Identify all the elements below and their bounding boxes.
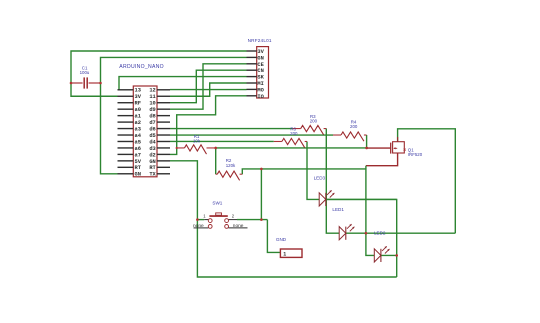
svg-text:a1: a1 [135, 114, 141, 120]
label LED1 [332, 207, 344, 212]
svg-text:10: 10 [149, 101, 155, 107]
node LED1 cathode junction [365, 232, 368, 235]
node SW1 pin2 junction [260, 218, 263, 221]
wire R6 to LED3 anode [307, 141, 319, 199]
svg-text:3V: 3V [135, 94, 142, 100]
svg-text:RT: RT [149, 165, 156, 171]
label none right [233, 224, 244, 229]
label none left [193, 224, 204, 229]
svg-text:RF: RF [135, 101, 141, 107]
svg-text:CE: CE [257, 62, 264, 68]
wire NRF IRQ to Arduino D2 [170, 96, 247, 155]
resistor R4 [333, 132, 367, 141]
svg-text:d5: d5 [149, 133, 155, 139]
svg-text:13: 13 [135, 88, 141, 94]
node R1-right junction [214, 147, 217, 150]
label R2 120k [226, 158, 236, 168]
svg-text:a4: a4 [135, 133, 142, 139]
svg-text:LED3: LED3 [314, 175, 326, 180]
wire 3V3 net: NRF 3V row to C1 left rail [71, 51, 247, 96]
node LED2 cathode junction [395, 254, 398, 257]
svg-text:5V: 5V [135, 159, 142, 165]
wire D5 to R4 [170, 134, 333, 136]
wire D12 to NRF MOSI [170, 89, 247, 91]
svg-text:GN: GN [135, 172, 141, 178]
svg-text:3V: 3V [257, 49, 264, 55]
resistor R2 [216, 171, 243, 180]
svg-text:120k: 120k [226, 163, 236, 168]
svg-text:TX: TX [149, 172, 156, 178]
svg-text:SW1: SW1 [212, 200, 222, 205]
svg-text:none: none [233, 224, 244, 229]
label LED2 [374, 231, 386, 236]
svg-text:a5: a5 [135, 139, 141, 145]
op-amp U2 Arduino Nano body with pin labels [118, 86, 171, 178]
node SW1 pin1 junction [196, 218, 199, 221]
svg-text:d2: d2 [149, 152, 155, 158]
svg-text:a6: a6 [135, 146, 141, 152]
label R3 200 [310, 114, 318, 124]
svg-text:200: 200 [350, 124, 358, 129]
diode LED3 [319, 190, 334, 206]
wire R1/R4 node to Q1 gate row [216, 147, 368, 149]
svg-text:a3: a3 [135, 126, 141, 132]
wire Q1 drain loop [398, 129, 456, 233]
svg-text:a0: a0 [135, 107, 141, 113]
node R4-gate junction [365, 147, 368, 150]
resistor R1 [177, 145, 216, 154]
wire Q1 gate lead [367, 147, 391, 149]
svg-text:IO: IO [257, 94, 264, 100]
wire source node down to LED2 anode [366, 166, 374, 256]
wire LED2 cathode [381, 254, 397, 256]
transistor Q1 IRF520 MOSFET [391, 137, 406, 154]
svg-text:100u: 100u [80, 70, 90, 75]
label LED3 [314, 175, 326, 180]
wire Arduino GND right pin down to bottom rail [170, 161, 397, 277]
label SW1 [212, 200, 222, 205]
svg-text:10k: 10k [193, 139, 201, 144]
ground GND terminal [280, 249, 302, 258]
svg-text:LED2: LED2 [374, 231, 386, 236]
wire D6 to R3 [170, 128, 293, 130]
svg-text:d7: d7 [149, 120, 155, 126]
svg-text:NRF24L01: NRF24L01 [248, 38, 272, 43]
svg-text:RT: RT [135, 165, 142, 171]
wire R3 to LED1 anode [326, 129, 339, 234]
svg-text:d3: d3 [149, 146, 155, 152]
wire switch node down to SW1 pin 2 [260, 169, 262, 220]
resistor R3 [293, 125, 327, 134]
svg-text:GN: GN [257, 55, 263, 61]
pin number 1 of SW1 [203, 213, 206, 218]
connector J1 NRF24L01 module body with pin labels [247, 47, 269, 100]
wire SW1 pin 1 connection [197, 219, 204, 221]
wire Q1 source run [366, 153, 398, 166]
svg-text:MI: MI [257, 81, 263, 87]
label ARDUINO_NANO [119, 64, 164, 70]
label NRF24L01 [248, 38, 272, 43]
svg-text:none: none [193, 224, 204, 229]
wire right return rail [326, 199, 396, 277]
svg-text:a2: a2 [135, 120, 141, 126]
svg-text:d8: d8 [149, 114, 155, 120]
wire D11 to NRF MISO [170, 83, 247, 96]
svg-text:MO: MO [257, 87, 264, 93]
wire D9 to NRF CE [170, 64, 247, 109]
label C1 100u [80, 65, 90, 75]
svg-text:11: 11 [149, 94, 155, 100]
wire LED3 cathode row [326, 198, 397, 200]
wire D13 to NRF SCK [118, 77, 247, 90]
wire SW1 pin 2 connection [237, 219, 267, 221]
svg-text:d4: d4 [149, 139, 156, 145]
svg-text:12: 12 [149, 88, 155, 94]
wire D4 to R6 [170, 140, 274, 142]
svg-text:GND: GND [276, 237, 287, 242]
svg-text:200: 200 [310, 119, 318, 124]
wire LED1 cathode row [346, 232, 456, 234]
svg-text:d6: d6 [149, 126, 155, 132]
capacitor C1 [70, 77, 102, 88]
svg-text:a7: a7 [135, 152, 141, 158]
svg-text:LED1: LED1 [332, 207, 344, 212]
svg-text:1: 1 [283, 252, 286, 258]
label Q1 IRF520 [408, 147, 423, 157]
svg-text:GN: GN [149, 159, 155, 165]
label R4 200 [350, 119, 358, 129]
node switch-R2 junction [260, 168, 263, 171]
svg-text:SK: SK [257, 75, 264, 81]
svg-text:IRF520: IRF520 [408, 152, 423, 157]
svg-text:d9: d9 [149, 107, 155, 113]
svg-text:200: 200 [290, 131, 298, 136]
resistor R6 [274, 138, 307, 147]
wire R4 to gate node [366, 135, 368, 148]
node R1-left junction [176, 147, 178, 149]
label GND [276, 237, 287, 242]
svg-text:ARDUINO_NANO: ARDUINO_NANO [119, 64, 164, 70]
svg-text:CN: CN [257, 68, 263, 74]
diode LED2 [374, 246, 389, 262]
wire D10 to NRF CSN [170, 70, 247, 103]
pin number 2 of SW1 [232, 213, 235, 218]
diode LED1 [339, 224, 354, 240]
wire R1 node down to R2 [215, 148, 217, 174]
label R1 10k [193, 134, 201, 144]
label R6 200 [290, 126, 298, 136]
wire to GND terminal [267, 220, 280, 253]
wire R2 to switch node row [242, 169, 366, 174]
wire GND net: NRF GN row down left rail to Arduino GND pin [101, 57, 247, 173]
switch SW1 pushbutton [194, 213, 248, 228]
